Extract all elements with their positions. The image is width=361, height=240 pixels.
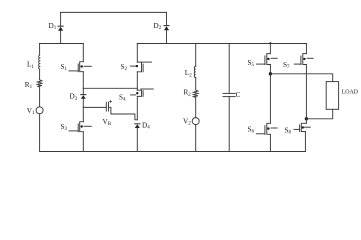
svg-text:V1: V1 (27, 107, 35, 116)
wire (39, 87, 41, 107)
wire bottom bus (40, 151, 306, 153)
transistor S5 (257, 44, 278, 74)
wire left cell top rail (40, 43, 84, 45)
svg-text:S2: S2 (121, 63, 128, 72)
node bus junction (269, 42, 271, 44)
wire (39, 69, 41, 80)
capacitor C (223, 44, 235, 152)
svg-text:L1: L1 (27, 61, 34, 70)
capacitor VB (106, 101, 111, 112)
wire right branch lower (195, 125, 197, 152)
wire (195, 78, 197, 91)
wire load bottom to node B (306, 109, 332, 119)
transistor S2 (131, 44, 152, 89)
resistor R2 (193, 90, 198, 97)
transistor S8 (294, 119, 310, 152)
transistor S3 (69, 107, 91, 151)
wire left branch lower (39, 114, 41, 152)
wire cap to D4 node (109, 107, 138, 120)
svg-text:R1: R1 (25, 81, 33, 90)
resistor R1 (37, 80, 42, 87)
source V2 (192, 118, 199, 125)
wire node A to load (270, 74, 332, 82)
transistor S7 (294, 44, 313, 119)
wire right branch upper (195, 44, 197, 67)
diode D3 (81, 88, 86, 107)
svg-text:S6: S6 (248, 125, 255, 134)
transistor S1 (69, 44, 91, 89)
node A (269, 72, 272, 75)
transistor S6 (257, 74, 278, 152)
transistor S4 (131, 88, 154, 120)
diode D4 (135, 124, 140, 152)
svg-text:D3: D3 (70, 93, 78, 102)
inductor L2 (194, 66, 195, 77)
diode D2 (164, 12, 169, 43)
wire left branch upper (39, 44, 41, 56)
svg-text:S4: S4 (119, 93, 126, 102)
inductor L1 (38, 55, 41, 69)
wire (195, 97, 197, 117)
source V1 (36, 107, 43, 114)
wire top bus (61, 11, 167, 13)
node B (305, 117, 308, 120)
svg-text:VB: VB (103, 118, 112, 127)
wire main mid bus (137, 43, 306, 45)
diode D1 (58, 12, 63, 43)
svg-text:LOAD: LOAD (342, 89, 359, 95)
svg-text:R2: R2 (184, 89, 192, 98)
svg-text:S8: S8 (285, 126, 292, 135)
wire node rail lower (83, 106, 106, 108)
svg-text:C: C (236, 91, 241, 99)
svg-text:S7: S7 (283, 61, 290, 70)
svg-text:L2: L2 (185, 69, 192, 78)
svg-text:S1: S1 (61, 63, 68, 72)
svg-text:S3: S3 (61, 123, 68, 132)
svg-text:D2: D2 (154, 22, 162, 31)
svg-text:V2: V2 (183, 117, 191, 126)
svg-text:S5: S5 (248, 59, 255, 68)
svg-text:D1: D1 (49, 22, 57, 31)
svg-text:D4: D4 (142, 121, 150, 130)
load resistor (326, 82, 338, 110)
wire node rail upper (83, 87, 137, 89)
